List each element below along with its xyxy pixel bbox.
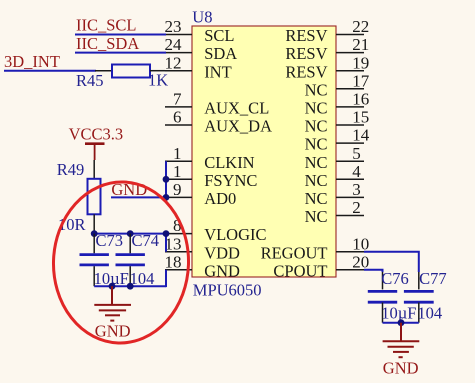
pin 17 NC stub xyxy=(336,88,364,90)
junction rail-R49 xyxy=(91,230,98,237)
capacitor C73 bottom lead xyxy=(93,266,95,286)
svg-text:VDD: VDD xyxy=(204,243,240,262)
svg-text:C77: C77 xyxy=(419,269,447,288)
svg-text:14: 14 xyxy=(352,126,370,145)
VCC3.3 bar xyxy=(85,142,105,145)
svg-text:23: 23 xyxy=(165,17,182,36)
ground symbol right xyxy=(400,323,402,342)
svg-text:R49: R49 xyxy=(57,160,85,179)
svg-text:5: 5 xyxy=(352,144,361,163)
svg-text:6: 6 xyxy=(173,108,182,127)
svg-text:GND: GND xyxy=(383,359,419,378)
capacitor C77 bottom lead xyxy=(418,303,420,323)
svg-text:VLOGIC: VLOGIC xyxy=(204,225,266,244)
junction FSYNC xyxy=(163,176,170,183)
svg-text:IIC_SDA: IIC_SDA xyxy=(76,34,139,53)
svg-text:REGOUT: REGOUT xyxy=(261,243,328,262)
pin 20 CPOUT stub xyxy=(336,269,364,271)
wire pin18 down xyxy=(165,270,167,287)
svg-text:AUX_CL: AUX_CL xyxy=(204,99,269,118)
svg-text:RESV: RESV xyxy=(285,44,327,63)
IC U8 MPU6050 body xyxy=(192,26,336,277)
svg-text:15: 15 xyxy=(352,108,369,127)
svg-text:IIC_SCL: IIC_SCL xyxy=(76,16,137,35)
junction rail-C74 xyxy=(127,230,134,237)
pin 15 NC stub xyxy=(336,124,364,126)
svg-text:13: 13 xyxy=(165,234,182,253)
pin 16 NC stub xyxy=(336,106,364,108)
pin 1 CLKIN stub xyxy=(165,160,192,162)
svg-text:GND: GND xyxy=(204,261,240,280)
svg-text:AD0: AD0 xyxy=(204,189,236,208)
wire REGOUT to C77 xyxy=(364,252,419,272)
pin 6 AUX_DA stub xyxy=(165,124,192,126)
svg-text:INT: INT xyxy=(204,62,232,81)
svg-text:17: 17 xyxy=(352,71,370,90)
svg-text:24: 24 xyxy=(165,35,183,54)
pin 7 AUX_CL stub xyxy=(165,106,192,108)
svg-text:R45: R45 xyxy=(76,71,104,90)
capacitor C77 top lead xyxy=(418,272,420,289)
svg-text:7: 7 xyxy=(173,90,182,109)
svg-text:VCC3.3: VCC3.3 xyxy=(69,125,124,144)
pin 2 NC stub xyxy=(336,215,364,217)
wire caps bottom rail right xyxy=(383,322,419,324)
resistor R45 right lead xyxy=(150,70,165,72)
capacitor C74 top lead xyxy=(129,234,131,254)
resistor R49 top lead xyxy=(93,160,95,179)
svg-text:RESV: RESV xyxy=(285,26,327,45)
pin 19 RESV stub xyxy=(336,70,364,72)
svg-text:1: 1 xyxy=(173,144,182,163)
svg-text:9: 9 xyxy=(173,180,182,199)
svg-text:104: 104 xyxy=(417,304,442,323)
resistor R45 body xyxy=(112,65,150,78)
capacitor C76 plates xyxy=(368,290,397,293)
svg-text:NC: NC xyxy=(305,207,328,226)
resistor R49 body xyxy=(88,179,101,215)
VCC3.3 stem xyxy=(94,144,96,160)
resistor R49 bottom lead xyxy=(93,214,95,234)
svg-text:12: 12 xyxy=(165,53,182,72)
svg-text:SDA: SDA xyxy=(204,44,237,63)
svg-text:19: 19 xyxy=(352,53,369,72)
svg-text:21: 21 xyxy=(352,35,369,54)
svg-text:NC: NC xyxy=(305,117,328,136)
wire VLOGIC to VDD vertical xyxy=(165,234,167,252)
svg-text:SCL: SCL xyxy=(204,26,234,45)
pin 5 NC stub xyxy=(336,160,364,162)
pin 24 SDA stub xyxy=(165,52,192,54)
svg-text:AUX_DA: AUX_DA xyxy=(204,117,272,136)
svg-text:10: 10 xyxy=(352,234,369,253)
wire VCC rail to VLOGIC xyxy=(94,233,166,235)
wire IIC_SCL to pin 23 xyxy=(75,34,166,36)
pin 22 RESV stub xyxy=(336,34,364,36)
svg-text:RESV: RESV xyxy=(285,62,327,81)
svg-text:C76: C76 xyxy=(381,269,409,288)
pin 11 FSYNC stub xyxy=(165,178,192,180)
svg-text:20: 20 xyxy=(352,252,369,271)
capacitor C74 plates xyxy=(116,253,145,256)
svg-text:MPU6050: MPU6050 xyxy=(193,280,262,299)
junction rail-VLOGIC xyxy=(163,230,170,237)
svg-text:16: 16 xyxy=(352,90,369,109)
junction C74 bottom xyxy=(127,283,134,290)
pin 3 NC stub xyxy=(336,196,364,198)
pin 18 GND stub xyxy=(165,269,192,271)
svg-text:NC: NC xyxy=(305,171,328,190)
capacitor C76 top lead xyxy=(382,272,384,289)
svg-text:FSYNC: FSYNC xyxy=(204,171,257,190)
capacitor C73 plates xyxy=(80,253,109,256)
red annotation ellipse xyxy=(51,180,192,346)
svg-text:C73: C73 xyxy=(96,231,124,250)
junction right GND stem xyxy=(398,319,405,326)
pin 21 RESV stub xyxy=(336,52,364,54)
junction AD0 xyxy=(163,194,170,201)
svg-text:1K: 1K xyxy=(148,71,168,90)
pin 13 VDD stub xyxy=(165,251,192,253)
svg-text:CPOUT: CPOUT xyxy=(273,261,327,280)
svg-text:NC: NC xyxy=(305,153,328,172)
pin 23 SCL stub xyxy=(165,34,192,36)
svg-text:NC: NC xyxy=(305,80,328,99)
pin 8 VLOGIC stub xyxy=(165,233,192,235)
svg-text:3: 3 xyxy=(352,180,361,199)
svg-text:3D_INT: 3D_INT xyxy=(4,52,60,71)
svg-text:NC: NC xyxy=(305,135,328,154)
wire CPOUT to C76 xyxy=(364,270,383,272)
wire CLKIN-FSYNC-AD0 vertical xyxy=(165,161,167,198)
svg-text:2: 2 xyxy=(352,198,361,217)
pin 14 NC stub xyxy=(336,142,364,144)
svg-text:GND: GND xyxy=(95,321,131,340)
capacitor C76 bottom lead xyxy=(382,303,384,323)
pin 4 NC stub xyxy=(336,178,364,180)
capacitor C74 bottom lead xyxy=(129,266,131,286)
capacitor C73 top lead xyxy=(93,234,95,254)
pin 10 REGOUT stub xyxy=(336,251,364,253)
pin 9 AD0 stub xyxy=(165,196,192,198)
svg-text:C74: C74 xyxy=(132,231,160,250)
wire caps bottom rail xyxy=(94,285,166,287)
wire IIC_SDA to pin 24 xyxy=(75,52,166,54)
junction GND stem xyxy=(109,283,116,290)
svg-text:18: 18 xyxy=(165,252,182,271)
resistor R45 left lead xyxy=(95,70,112,72)
svg-text:CLKIN: CLKIN xyxy=(204,153,254,172)
pin 12 INT stub xyxy=(165,70,192,72)
ground symbol left xyxy=(111,286,113,305)
svg-text:4: 4 xyxy=(352,162,361,181)
svg-text:1: 1 xyxy=(173,162,182,181)
svg-text:22: 22 xyxy=(352,17,369,36)
wire GND label to AD0 xyxy=(111,196,166,198)
svg-text:NC: NC xyxy=(305,99,328,118)
svg-text:10µF: 10µF xyxy=(381,304,416,323)
svg-text:U8: U8 xyxy=(192,8,212,27)
svg-text:NC: NC xyxy=(305,189,328,208)
capacitor C77 plates xyxy=(404,290,434,293)
wire 3D_INT to R45 xyxy=(4,70,96,72)
